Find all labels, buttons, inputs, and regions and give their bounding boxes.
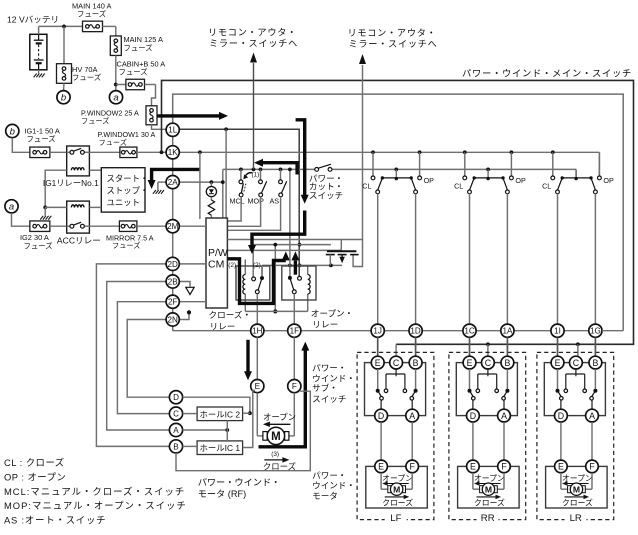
svg-text:LF: LF	[390, 513, 401, 524]
svg-text:LR: LR	[570, 513, 582, 524]
svg-text:ミラー・スイッチへ: ミラー・スイッチへ	[209, 39, 298, 49]
svg-text:E: E	[255, 382, 261, 391]
svg-text:b: b	[61, 93, 66, 104]
svg-text:(2): (2)	[253, 262, 261, 269]
svg-text:フューズ: フューズ	[99, 138, 127, 147]
svg-text:クローズ: クローズ	[382, 497, 413, 507]
svg-text:E: E	[378, 462, 384, 472]
svg-text:12 Vバッテリ: 12 Vバッテリ	[7, 15, 59, 25]
svg-text:(1): (1)	[252, 171, 260, 178]
svg-text:2N: 2N	[168, 315, 179, 324]
svg-text:2A: 2A	[168, 178, 179, 187]
svg-text:ホールIC 1: ホールIC 1	[200, 443, 241, 453]
svg-text:B: B	[504, 358, 510, 368]
svg-text:パワー・: パワー・	[312, 470, 346, 480]
svg-text:2B: 2B	[168, 277, 178, 286]
svg-text:モータ: モータ	[312, 491, 338, 501]
svg-text:(2): (2)	[228, 262, 236, 269]
svg-text:フューズ: フューズ	[77, 10, 107, 19]
svg-text:1J: 1J	[373, 327, 382, 336]
svg-text:D: D	[558, 411, 564, 421]
svg-text:1I: 1I	[554, 327, 561, 336]
svg-text:P/W: P/W	[208, 247, 228, 259]
svg-text:E: E	[375, 358, 381, 368]
svg-text:OP: OP	[515, 176, 526, 185]
svg-text:2F: 2F	[168, 298, 178, 307]
svg-text:C: C	[173, 410, 179, 419]
svg-text:M: M	[393, 484, 400, 494]
svg-text:(3): (3)	[271, 451, 279, 458]
svg-text:ストップ・: ストップ・	[107, 186, 149, 196]
svg-text:C: C	[485, 358, 492, 368]
svg-text:b: b	[10, 126, 15, 137]
svg-text:1G: 1G	[590, 327, 601, 336]
svg-text:CL: CL	[542, 182, 551, 191]
svg-text:MOP: MOP	[248, 196, 265, 205]
svg-text:オープン: オープン	[562, 474, 593, 483]
svg-text:モータ (RF): モータ (RF)	[198, 489, 246, 499]
svg-text:ユニット: ユニット	[107, 198, 141, 208]
svg-text:フューズ: フューズ	[24, 241, 54, 250]
svg-text:ホールIC 2: ホールIC 2	[200, 409, 241, 419]
svg-text:スイッチ: スイッチ	[309, 190, 343, 200]
svg-text:1D: 1D	[410, 327, 421, 336]
svg-text:パワー・: パワー・	[312, 363, 346, 373]
svg-text:E: E	[558, 462, 564, 472]
svg-text:CL : クローズ: CL : クローズ	[4, 457, 65, 468]
svg-text:フューズ: フューズ	[27, 135, 57, 144]
svg-text:a: a	[113, 93, 118, 104]
svg-text:B: B	[592, 358, 598, 368]
svg-text:リレー: リレー	[210, 321, 236, 331]
svg-text:1F: 1F	[290, 327, 300, 336]
svg-text:MCL: MCL	[230, 196, 245, 205]
svg-text:ミラー・スイッチへ: ミラー・スイッチへ	[349, 39, 438, 49]
svg-text:MCL:マニュアル・クローズ・スイッチ: MCL:マニュアル・クローズ・スイッチ	[4, 486, 185, 497]
svg-text:クローズ・: クローズ・	[209, 309, 252, 320]
svg-text:オープン: オープン	[263, 412, 296, 422]
svg-text:CM: CM	[208, 259, 224, 271]
svg-text:OP : オープン: OP : オープン	[4, 471, 66, 482]
svg-text:リレー: リレー	[312, 320, 338, 330]
svg-text:F: F	[410, 462, 416, 472]
svg-text:E: E	[555, 358, 561, 368]
svg-text:E: E	[467, 358, 473, 368]
svg-text:1C: 1C	[464, 327, 475, 336]
svg-text:C: C	[573, 358, 580, 368]
svg-text:OP: OP	[603, 176, 614, 185]
svg-text:D: D	[173, 393, 179, 402]
svg-text:M: M	[573, 484, 580, 494]
svg-text:ACCリレー: ACCリレー	[57, 235, 101, 245]
svg-text:D: D	[470, 411, 476, 421]
svg-text:F: F	[589, 462, 595, 472]
svg-text:ウインド・: ウインド・	[312, 373, 355, 383]
svg-text:フューズ: フューズ	[119, 68, 149, 77]
svg-text:スイッチ: スイッチ	[312, 394, 346, 404]
svg-text:1H: 1H	[252, 327, 263, 336]
svg-text:クローズ: クローズ	[562, 497, 593, 507]
svg-text:B: B	[173, 442, 178, 451]
svg-text:MOP:マニュアル・オープン・スイッチ: MOP:マニュアル・オープン・スイッチ	[4, 500, 187, 511]
svg-text:CL: CL	[362, 182, 371, 191]
svg-text:M: M	[271, 431, 281, 443]
svg-text:OP: OP	[424, 176, 435, 185]
svg-text:1L: 1L	[168, 126, 178, 135]
svg-text:パワー・ウインド・メイン・スイッチ: パワー・ウインド・メイン・スイッチ	[462, 68, 632, 78]
svg-text:A: A	[501, 411, 507, 421]
svg-text:C: C	[393, 358, 400, 368]
svg-text:AS :オート・スイッチ: AS :オート・スイッチ	[4, 515, 106, 526]
svg-text:M: M	[485, 484, 492, 494]
svg-text:1K: 1K	[168, 148, 179, 157]
svg-text:2M: 2M	[167, 222, 179, 231]
svg-text:オープン: オープン	[382, 474, 413, 483]
svg-text:F: F	[501, 462, 507, 472]
svg-text:オープン・: オープン・	[311, 308, 353, 318]
svg-text:AS: AS	[270, 196, 280, 205]
svg-text:フューズ: フューズ	[72, 73, 102, 82]
svg-text:CL: CL	[454, 182, 463, 191]
svg-text:B: B	[413, 358, 419, 368]
svg-text:リモコン・アウタ・: リモコン・アウタ・	[348, 28, 437, 38]
svg-text:クローズ: クローズ	[474, 497, 505, 507]
svg-text:ウインド・: ウインド・	[312, 481, 355, 491]
svg-text:IG1リレーNo.1: IG1リレーNo.1	[43, 178, 99, 188]
svg-text:D: D	[378, 411, 384, 421]
svg-text:A: A	[173, 426, 179, 435]
svg-text:フューズ: フューズ	[124, 44, 154, 53]
svg-text:フューズ: フューズ	[81, 116, 109, 125]
svg-text:a: a	[9, 202, 14, 213]
svg-text:サブ・: サブ・	[312, 382, 338, 393]
svg-text:2D: 2D	[168, 260, 179, 269]
svg-text:A: A	[589, 411, 595, 421]
svg-text:E: E	[470, 462, 476, 472]
svg-text:スタート・: スタート・	[107, 174, 149, 184]
svg-text:A: A	[409, 411, 415, 421]
svg-text:1A: 1A	[502, 327, 513, 336]
svg-text:パワー・ウインド・: パワー・ウインド・	[198, 477, 281, 487]
svg-text:リモコン・アウタ・: リモコン・アウタ・	[208, 27, 297, 37]
svg-text:オープン: オープン	[474, 474, 505, 483]
svg-text:フューズ: フューズ	[112, 241, 140, 250]
svg-text:F: F	[292, 382, 297, 391]
svg-text:RR: RR	[481, 513, 495, 524]
